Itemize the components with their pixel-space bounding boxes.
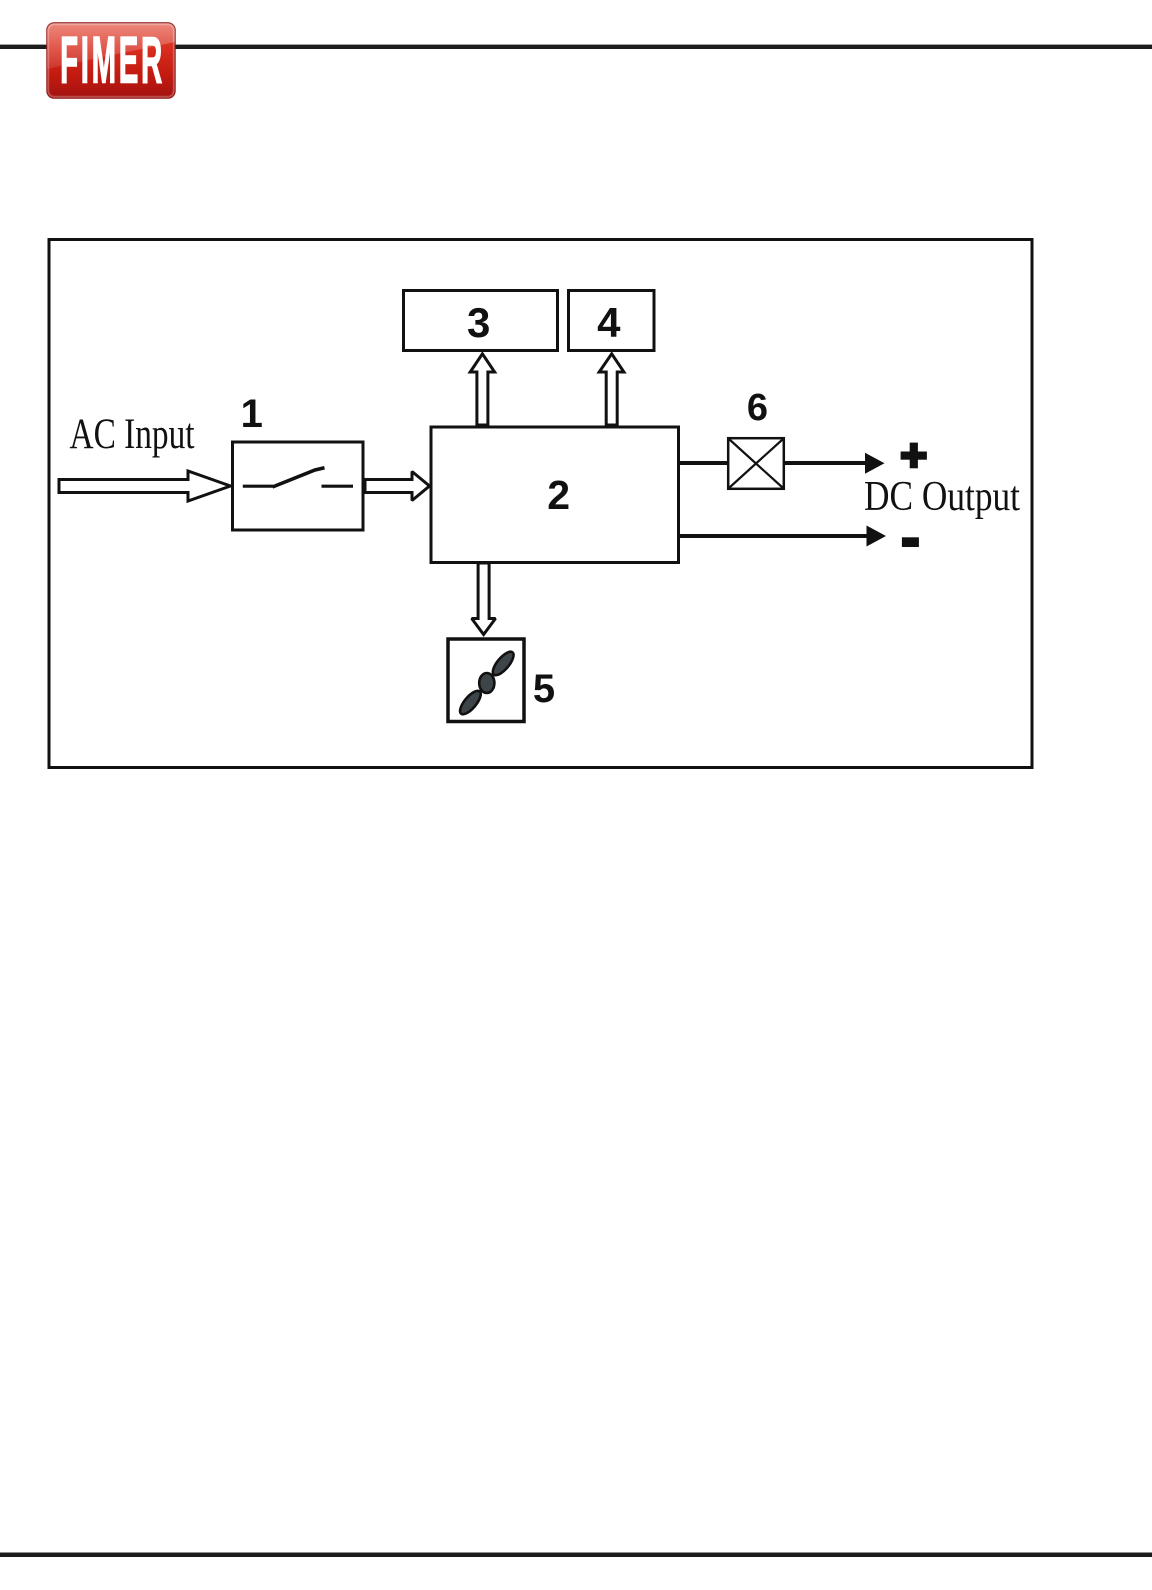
box 4 [569, 291, 655, 351]
FIMER logo [47, 23, 175, 98]
plus sign [901, 443, 927, 469]
svg-text:2: 2 [547, 472, 570, 518]
svg-text:FIMER: FIMER [60, 23, 165, 97]
down arrow box2 to fan [472, 563, 496, 635]
fuse box 6 [728, 438, 784, 489]
wire box2 to minus output [679, 534, 869, 538]
svg-text:5: 5 [533, 667, 555, 711]
footer rule [0, 1553, 1152, 1558]
fan propeller [457, 649, 517, 718]
svg-text:DC Output: DC Output [864, 474, 1020, 520]
arrow box1 to box2 [365, 472, 430, 501]
svg-text:3: 3 [467, 299, 490, 346]
diagram frame [49, 240, 1032, 768]
wire box2 to fuse [679, 461, 729, 465]
plus arrowhead [865, 453, 885, 474]
converter box 2 [431, 427, 679, 563]
minus arrowhead [867, 526, 887, 547]
minus sign [902, 537, 919, 547]
box 3 [404, 291, 558, 351]
svg-text:AC Input: AC Input [70, 411, 195, 458]
fan box 5 [448, 639, 524, 722]
svg-text:4: 4 [597, 299, 621, 346]
switch symbol [243, 468, 353, 487]
up arrow box2 to box4 [599, 354, 624, 425]
svg-text:1: 1 [241, 392, 263, 436]
header rule [0, 45, 1152, 49]
up arrow box2 to box3 [470, 354, 494, 425]
breaker box 1 [233, 442, 364, 530]
AC input arrow [59, 471, 231, 501]
wire fuse to plus output [784, 461, 867, 465]
svg-text:6: 6 [747, 387, 768, 429]
